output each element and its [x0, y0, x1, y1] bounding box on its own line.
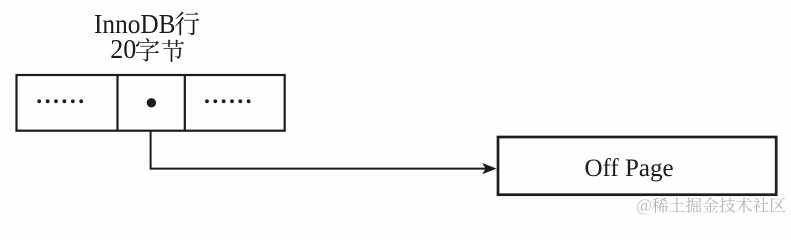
CJK glyph 节 [162, 40, 184, 62]
svg-text:Off Page: Off Page [584, 155, 673, 182]
svg-text:20: 20 [110, 33, 136, 64]
arrowhead [482, 163, 496, 174]
CJK glyph 行 of label line 1 [175, 12, 199, 36]
InnoDB row record box (3 cells) [17, 75, 285, 131]
cell divider 2 [184, 75, 186, 131]
cell divider 1 [116, 75, 118, 131]
arrow wire from pointer cell down and right to Off Page [151, 131, 489, 169]
ellipsis dots in right cell [205, 99, 250, 103]
pointer dot in middle cell (20-byte pointer) [147, 98, 156, 107]
Off Page box [498, 137, 776, 195]
ellipsis dots in left cell [37, 99, 83, 103]
watermark @稀土掘金技术社区 [637, 197, 785, 214]
CJK glyph 字 [136, 38, 159, 61]
